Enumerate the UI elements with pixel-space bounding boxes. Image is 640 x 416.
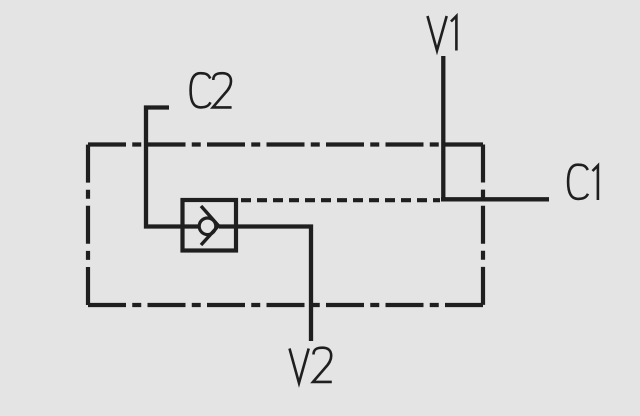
check valve CV1: body box: [183, 200, 237, 251]
check valve CV1: seat chevron: [201, 206, 219, 245]
wire: C1 port horizontal line: [441, 197, 549, 201]
port label C1: [568, 165, 598, 200]
check valve CV1: ball: [199, 218, 216, 235]
port label V2: [290, 348, 332, 383]
wire: V1 port vertical line: [441, 56, 445, 201]
valve body boundary (dash-dot enclosure): [88, 145, 483, 306]
wire: check valve outlet to V2 port: [219, 227, 311, 342]
wire: C2 port line into check valve (stub, vertical drop, feed): [146, 108, 199, 227]
pilot line (dashed) from check valve to V1/C1 junction: [241, 198, 440, 202]
port label C2: [191, 73, 232, 107]
port label V1: [428, 16, 457, 51]
